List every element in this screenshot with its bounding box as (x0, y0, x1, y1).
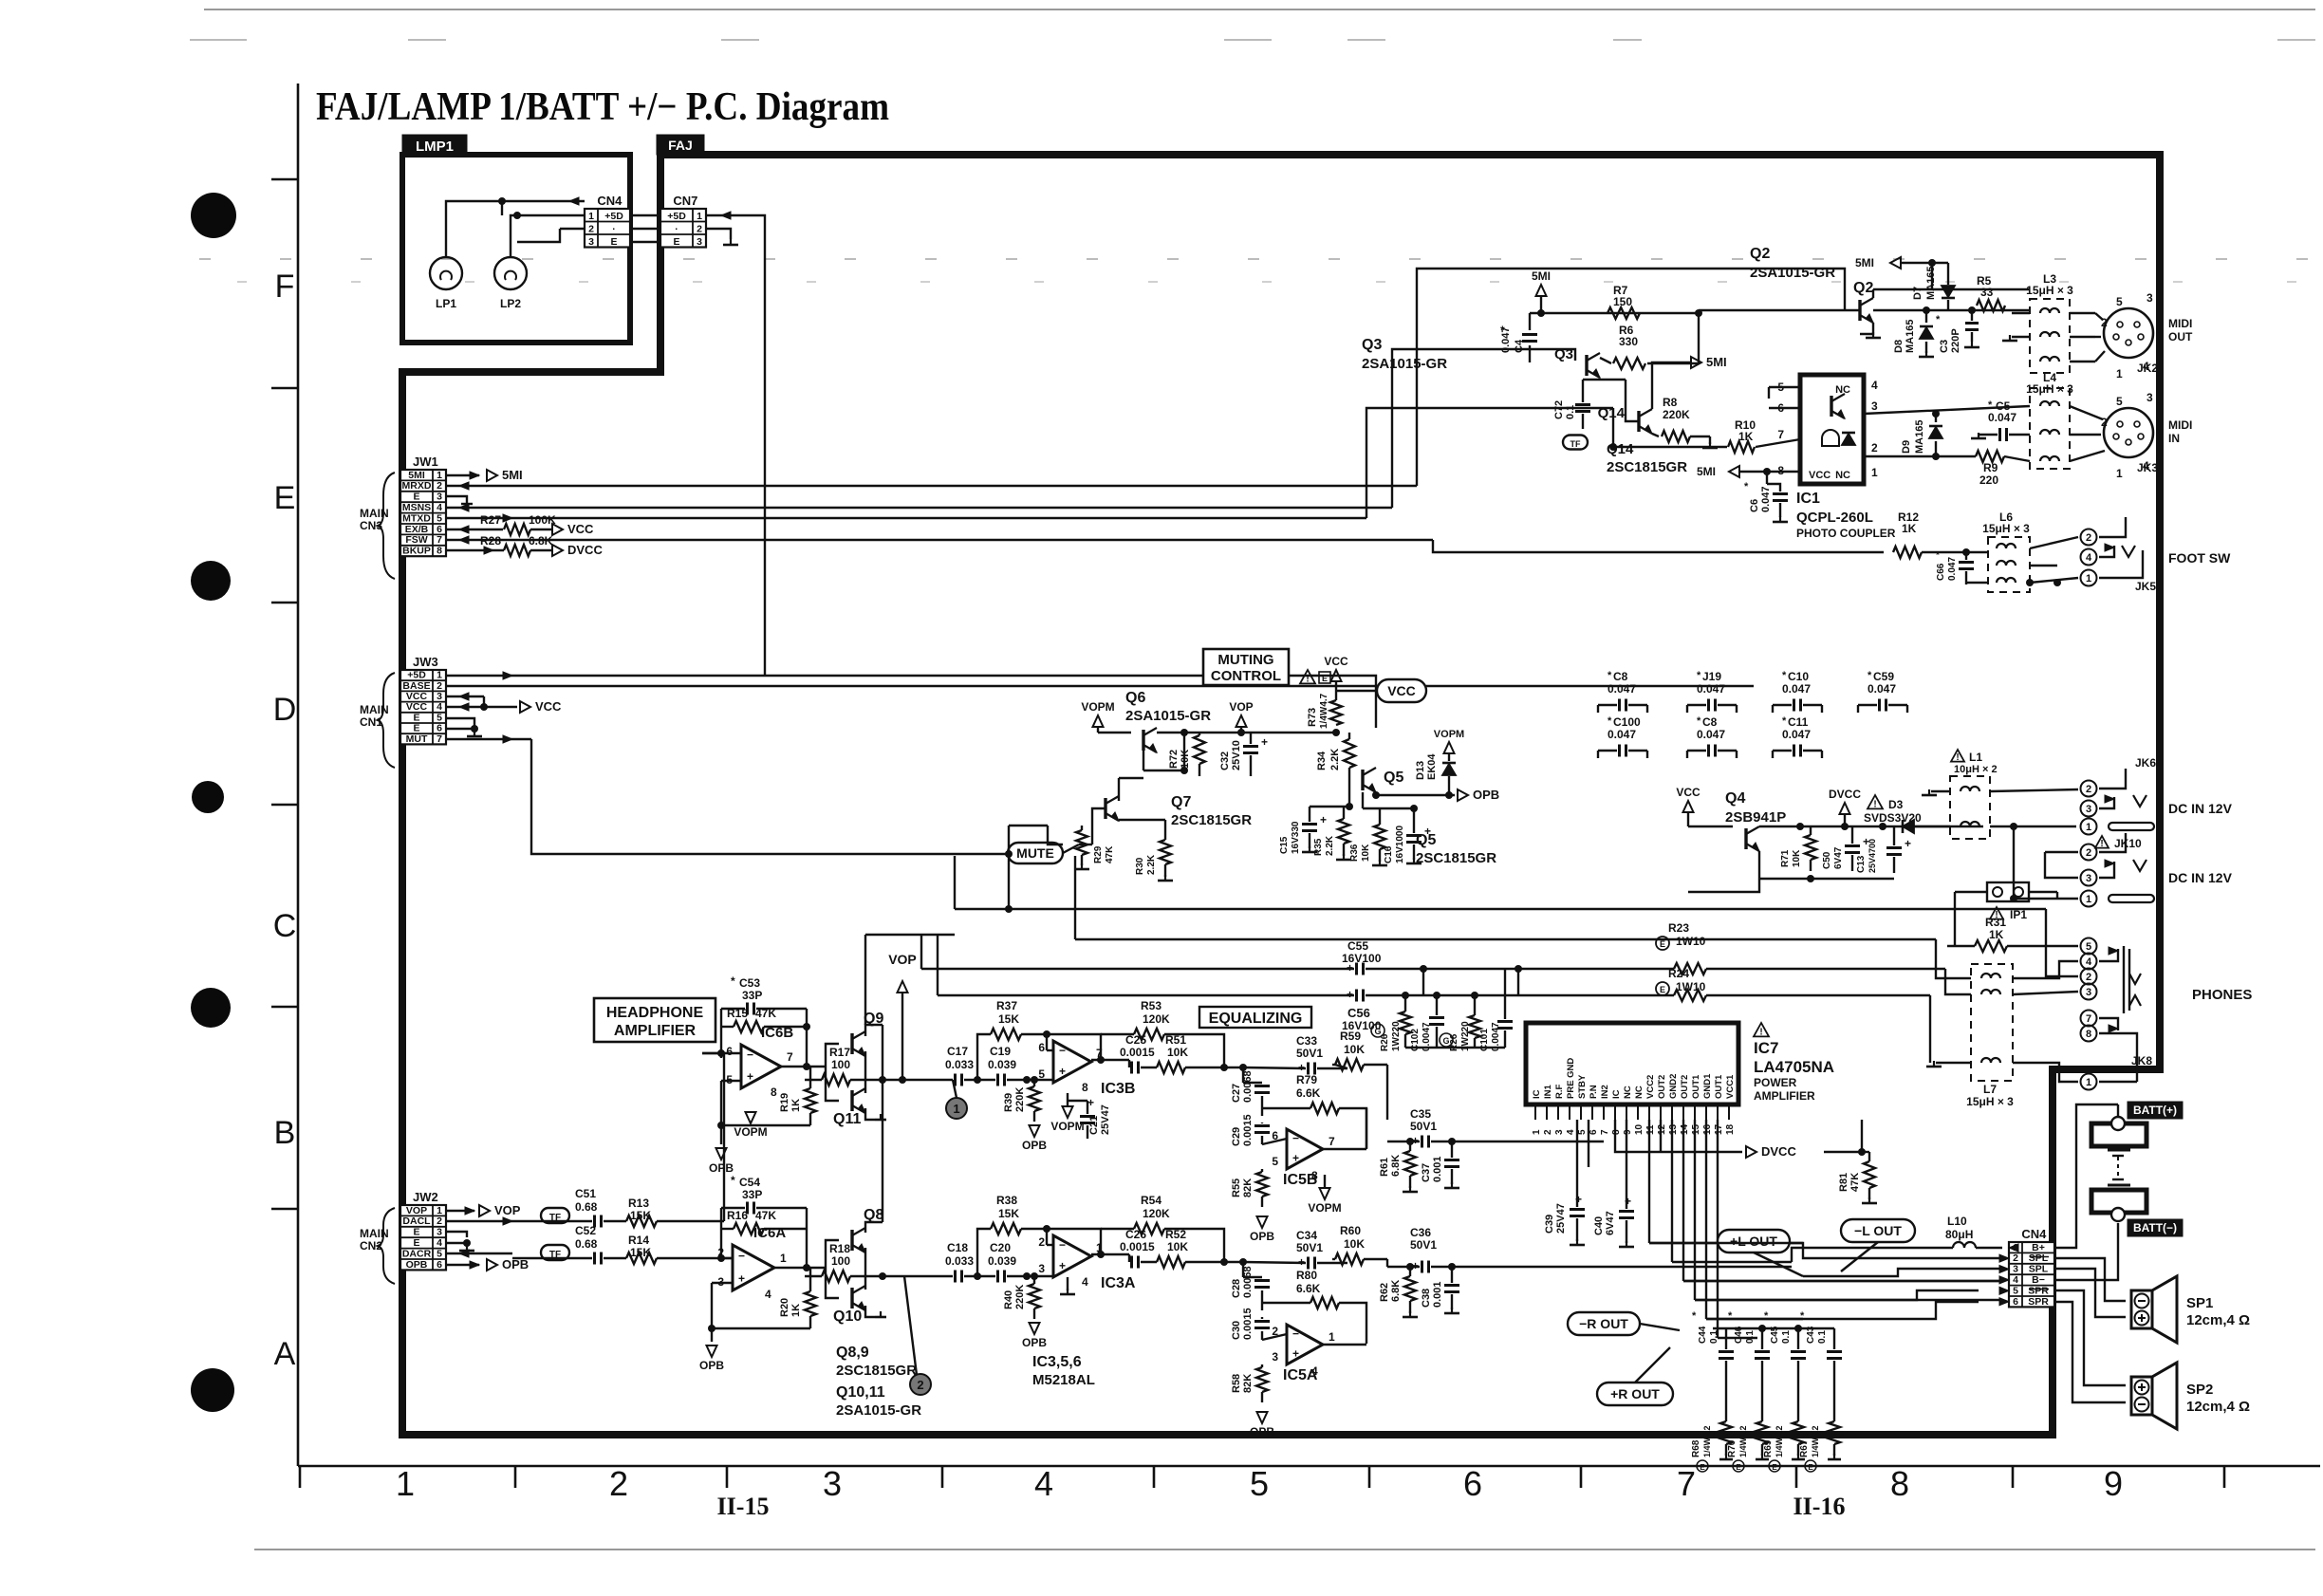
svg-text:5: 5 (437, 1248, 442, 1259)
svg-text:1/4W2.2: 1/4W2.2 (1811, 1425, 1820, 1457)
svg-text:VOP: VOP (494, 1203, 521, 1217)
svg-text:5: 5 (1272, 1155, 1278, 1168)
svg-text:+: + (747, 1070, 753, 1084)
svg-text:2SC1815GR: 2SC1815GR (836, 1363, 917, 1379)
svg-text:!: ! (1873, 799, 1876, 809)
svg-text:1K: 1K (1989, 928, 2004, 941)
svg-text:R53: R53 (1141, 999, 1161, 1012)
svg-text:C51: C51 (575, 1187, 596, 1200)
svg-text:7: 7 (1677, 1464, 1696, 1503)
svg-text:25V4700: 25V4700 (1868, 839, 1877, 873)
svg-text:82K: 82K (1242, 1178, 1254, 1197)
svg-text:2: 2 (437, 480, 442, 492)
svg-text:4: 4 (437, 502, 442, 513)
svg-text:C30: C30 (1231, 1321, 1242, 1340)
svg-text:DVCC: DVCC (567, 543, 603, 557)
svg-text:C100: C100 (1613, 715, 1641, 729)
svg-text:B−: B− (2032, 1274, 2045, 1286)
svg-text:MUTE: MUTE (1016, 845, 1054, 861)
svg-text:5: 5 (2013, 1285, 2018, 1296)
svg-text:R79: R79 (1296, 1073, 1317, 1086)
svg-text:FAJ/LAMP 1/BATT +/− P.C. Diagr: FAJ/LAMP 1/BATT +/− P.C. Diagram (316, 85, 889, 129)
svg-text:R16: R16 (727, 1209, 748, 1222)
svg-text:!: ! (1759, 1027, 1762, 1037)
svg-text:R35: R35 (1313, 838, 1324, 856)
svg-text:5: 5 (1038, 1067, 1045, 1081)
svg-text:IC1: IC1 (1796, 491, 1820, 507)
svg-text:C59: C59 (1873, 670, 1894, 683)
svg-text:VOP: VOP (888, 952, 917, 967)
svg-text:1: 1 (437, 1205, 442, 1216)
svg-text:*: * (1868, 670, 1872, 681)
svg-text:5MI: 5MI (1706, 355, 1727, 369)
svg-text:6.6K: 6.6K (1296, 1086, 1321, 1100)
svg-text:L10: L10 (1947, 1215, 1967, 1228)
svg-text:1W10: 1W10 (1676, 935, 1706, 948)
svg-text:1: 1 (2086, 822, 2091, 833)
svg-text:*: * (731, 1174, 735, 1187)
svg-text:10μH × 2: 10μH × 2 (1954, 764, 1998, 775)
svg-text:DVCC: DVCC (1761, 1144, 1796, 1159)
svg-text:E: E (1808, 1463, 1813, 1472)
svg-text:3: 3 (2013, 1264, 2018, 1275)
svg-text:8: 8 (437, 546, 442, 557)
svg-text:0.0015: 0.0015 (1120, 1240, 1155, 1253)
svg-text:VOPM: VOPM (1308, 1201, 1341, 1215)
svg-text:0.033: 0.033 (945, 1254, 974, 1268)
svg-text:*: * (1500, 324, 1505, 337)
svg-text:D3: D3 (1888, 798, 1904, 811)
svg-text:E: E (413, 1237, 419, 1249)
svg-text:OPB: OPB (1473, 788, 1499, 802)
svg-text:G: G (1442, 1036, 1449, 1046)
svg-text:C18: C18 (947, 1241, 968, 1254)
svg-text:1: 1 (780, 1252, 787, 1265)
svg-text:C10: C10 (1788, 670, 1809, 683)
svg-text:R55: R55 (1231, 1178, 1242, 1197)
svg-text:6: 6 (1589, 1129, 1599, 1135)
svg-text:0.047: 0.047 (1760, 486, 1772, 512)
svg-text:5MI: 5MI (1855, 256, 1874, 269)
svg-text:Q10,11: Q10,11 (836, 1384, 885, 1401)
svg-text:*: * (1988, 399, 1993, 411)
svg-text:SPR: SPR (2028, 1296, 2049, 1308)
svg-text:L1: L1 (1969, 751, 1982, 764)
svg-text:VCC: VCC (535, 699, 562, 714)
svg-text:15K: 15K (998, 1207, 1019, 1220)
svg-text:DACL: DACL (402, 1216, 431, 1227)
svg-text:OPB: OPB (1022, 1336, 1047, 1349)
svg-text:L7: L7 (1983, 1083, 1997, 1096)
svg-text:C13: C13 (1856, 855, 1867, 873)
svg-text:0.047: 0.047 (1868, 682, 1896, 696)
svg-text:CONTROL: CONTROL (1211, 668, 1281, 684)
svg-text:12cm,4 Ω: 12cm,4 Ω (2186, 1312, 2250, 1328)
svg-text:E: E (413, 723, 419, 734)
svg-text:220K: 220K (1014, 1087, 1026, 1112)
svg-text:BATT(+): BATT(+) (2133, 1104, 2177, 1117)
svg-text:25V47: 25V47 (1100, 1104, 1111, 1135)
svg-text:2: 2 (1543, 1129, 1553, 1135)
svg-text:10K: 10K (1344, 1043, 1365, 1056)
svg-text:TF: TF (1570, 439, 1581, 449)
svg-text:VOP: VOP (406, 1205, 427, 1216)
svg-text:C3: C3 (1939, 340, 1950, 353)
svg-text:C16: C16 (1384, 845, 1394, 863)
svg-text:JK6: JK6 (2135, 756, 2156, 770)
svg-text:5: 5 (1577, 1129, 1588, 1135)
svg-text:JW2: JW2 (413, 1190, 438, 1204)
svg-text:C21: C21 (1088, 1116, 1100, 1135)
svg-text:R36: R36 (1349, 844, 1360, 862)
svg-text:1: 1 (396, 1464, 415, 1503)
svg-text:5: 5 (2086, 941, 2091, 953)
svg-text:R68: R68 (1691, 1439, 1701, 1457)
svg-text:C33: C33 (1296, 1034, 1317, 1048)
svg-text:2SA1015-GR: 2SA1015-GR (1750, 265, 1835, 281)
svg-text:*: * (1697, 670, 1701, 681)
svg-text:4: 4 (765, 1288, 771, 1301)
svg-text:+5D: +5D (407, 670, 426, 681)
svg-text:5: 5 (1250, 1464, 1269, 1503)
svg-text:MA165: MA165 (1905, 320, 1916, 353)
svg-text:6: 6 (1038, 1041, 1045, 1054)
svg-text:100: 100 (831, 1058, 850, 1071)
svg-text:SPL: SPL (2029, 1264, 2049, 1275)
svg-text:VOPM: VOPM (1050, 1120, 1084, 1133)
svg-text:LMP1: LMP1 (416, 139, 454, 155)
svg-text:−R OUT: −R OUT (1579, 1316, 1628, 1331)
svg-text:1K: 1K (790, 1099, 802, 1112)
svg-text:Q6: Q6 (1125, 690, 1145, 706)
svg-text:5MI: 5MI (408, 470, 425, 481)
svg-text:50V1: 50V1 (1296, 1241, 1323, 1254)
svg-text:2: 2 (2086, 972, 2091, 983)
svg-text:C17: C17 (947, 1045, 968, 1058)
svg-text:2: 2 (437, 680, 442, 692)
svg-text:IC3B: IC3B (1101, 1081, 1135, 1097)
svg-text:GND2: GND2 (1668, 1074, 1679, 1099)
svg-text:VCC: VCC (567, 522, 594, 536)
svg-text:0.047: 0.047 (1782, 682, 1811, 696)
svg-text:2SB941P: 2SB941P (1725, 809, 1786, 826)
svg-text:Q10: Q10 (833, 1308, 862, 1325)
svg-text:IN1: IN1 (1543, 1085, 1553, 1100)
svg-text:1: 1 (2086, 1077, 2091, 1088)
svg-text:II-16: II-16 (1793, 1493, 1846, 1520)
svg-text:C: C (273, 908, 297, 944)
svg-text:16: 16 (1702, 1123, 1713, 1135)
svg-text:1: 1 (2086, 573, 2091, 585)
svg-text:4: 4 (437, 1237, 442, 1249)
svg-text:VOP: VOP (1229, 700, 1253, 714)
svg-text:3: 3 (588, 236, 594, 248)
svg-text:9: 9 (2104, 1464, 2123, 1503)
svg-text:JW3: JW3 (413, 655, 438, 669)
svg-text:II-15: II-15 (717, 1493, 770, 1520)
svg-text:15μH × 3: 15μH × 3 (2026, 284, 2073, 297)
svg-text:JK10: JK10 (2114, 837, 2142, 850)
svg-text:OUT1: OUT1 (1691, 1074, 1701, 1099)
svg-text:2: 2 (697, 223, 702, 234)
svg-text:IN: IN (2168, 432, 2180, 445)
svg-text:MUT: MUT (406, 733, 428, 745)
svg-text:R69: R69 (1763, 1439, 1774, 1457)
svg-text:1: 1 (588, 211, 594, 222)
svg-text:1: 1 (2086, 894, 2091, 905)
svg-text:P.N: P.N (1589, 1085, 1599, 1099)
svg-text:100: 100 (831, 1254, 850, 1268)
svg-text:8: 8 (2086, 1029, 2091, 1040)
svg-text:4: 4 (2086, 552, 2092, 564)
svg-text:FOOT SW: FOOT SW (2168, 550, 2231, 566)
svg-text:330: 330 (1619, 335, 1638, 348)
svg-text:3: 3 (2146, 391, 2153, 404)
svg-text:0.68: 0.68 (575, 1200, 598, 1214)
svg-text:IC: IC (1611, 1089, 1622, 1099)
svg-text:2SC1815GR: 2SC1815GR (1607, 459, 1687, 475)
svg-text:4: 4 (1082, 1275, 1088, 1289)
svg-text:·: · (612, 223, 616, 234)
svg-text:E: E (413, 492, 419, 503)
svg-text:*: * (1608, 715, 1612, 727)
svg-text:MAIN: MAIN (360, 703, 389, 716)
svg-text:VCC1: VCC1 (1725, 1074, 1736, 1099)
svg-text:R62: R62 (1379, 1283, 1390, 1302)
svg-text:1: 1 (1532, 1129, 1542, 1135)
svg-text:Q5: Q5 (1384, 770, 1403, 786)
svg-text:C52: C52 (575, 1224, 596, 1237)
svg-text:HEADPHONE: HEADPHONE (606, 1005, 704, 1021)
svg-text:2: 2 (2101, 416, 2108, 429)
svg-text:Q2: Q2 (1853, 280, 1873, 296)
svg-text:1/4W4.7: 1/4W4.7 (1319, 693, 1329, 729)
svg-text:1/4W2.2: 1/4W2.2 (1775, 1425, 1784, 1457)
svg-text:7: 7 (437, 733, 442, 745)
svg-text:Q11: Q11 (833, 1111, 861, 1127)
svg-text:CN7: CN7 (673, 194, 697, 208)
svg-text:OUT2: OUT2 (1657, 1075, 1667, 1099)
svg-text:DC IN 12V: DC IN 12V (2168, 801, 2233, 816)
svg-text:0.033: 0.033 (945, 1058, 974, 1071)
svg-text:6: 6 (726, 1045, 733, 1058)
svg-text:OPB: OPB (502, 1257, 529, 1271)
svg-text:PHONES: PHONES (2192, 987, 2252, 1003)
svg-text:E: E (1736, 1463, 1741, 1472)
svg-text:16V330: 16V330 (1291, 821, 1301, 854)
svg-text:5: 5 (2116, 295, 2123, 308)
svg-text:OPB: OPB (406, 1259, 428, 1271)
svg-text:+R OUT: +R OUT (1610, 1386, 1660, 1401)
svg-text:OUT1: OUT1 (1714, 1074, 1724, 1099)
svg-text:6: 6 (437, 524, 442, 535)
svg-text:DVCC: DVCC (1829, 788, 1861, 801)
svg-text:6.8K: 6.8K (1390, 1280, 1402, 1302)
svg-text:D9: D9 (1901, 440, 1912, 454)
svg-text:47K: 47K (1849, 1173, 1861, 1192)
svg-text:0.047: 0.047 (1608, 682, 1636, 696)
svg-text:R73: R73 (1307, 708, 1318, 727)
svg-text:R70: R70 (1727, 1439, 1738, 1457)
svg-text:0.001: 0.001 (1432, 1281, 1443, 1308)
svg-text:A: A (274, 1336, 296, 1372)
svg-text:C15: C15 (1279, 836, 1290, 854)
svg-text:R54: R54 (1141, 1194, 1161, 1207)
svg-text:12: 12 (1657, 1123, 1667, 1135)
svg-text:0.1: 0.1 (1709, 1330, 1719, 1344)
svg-text:C4: C4 (1514, 339, 1525, 353)
svg-text:−: − (1059, 1238, 1066, 1252)
svg-text:8: 8 (771, 1086, 777, 1099)
svg-text:C27: C27 (1231, 1084, 1242, 1103)
svg-text:2: 2 (1871, 441, 1878, 455)
svg-text:C44: C44 (1698, 1326, 1708, 1344)
svg-text:220K: 220K (1663, 408, 1690, 421)
svg-text:+: + (1059, 1065, 1066, 1078)
svg-text:MSNS: MSNS (402, 502, 431, 513)
svg-text:0.047: 0.047 (1608, 728, 1636, 741)
svg-text:1W220: 1W220 (1391, 1021, 1402, 1051)
svg-text:10K: 10K (1344, 1237, 1365, 1251)
svg-text:MUTING: MUTING (1217, 652, 1273, 668)
svg-text:IC5A: IC5A (1283, 1367, 1318, 1383)
svg-text:C20: C20 (990, 1241, 1011, 1254)
svg-text:+5D: +5D (667, 211, 686, 222)
svg-text:11: 11 (1645, 1124, 1656, 1135)
svg-text:7: 7 (787, 1050, 793, 1064)
svg-text:*: * (731, 974, 735, 988)
svg-text:GND1: GND1 (1702, 1073, 1713, 1099)
svg-text:C66: C66 (1936, 563, 1946, 581)
svg-text:33P: 33P (742, 1188, 762, 1201)
svg-text:2: 2 (2086, 532, 2091, 544)
svg-text:1: 1 (2116, 367, 2123, 380)
svg-text:M5218AL: M5218AL (1032, 1372, 1095, 1388)
svg-text:−: − (747, 1049, 753, 1062)
svg-text:R71: R71 (1780, 849, 1791, 867)
svg-text:+: + (1292, 1151, 1299, 1164)
svg-text:6V47: 6V47 (1605, 1211, 1616, 1235)
svg-text:!: ! (1956, 752, 1959, 763)
svg-text:3: 3 (437, 1227, 442, 1238)
svg-text:0.047: 0.047 (1782, 728, 1811, 741)
svg-text:0.1: 0.1 (1745, 1330, 1756, 1344)
svg-text:MAIN: MAIN (360, 1227, 389, 1240)
svg-text:10K: 10K (1361, 844, 1371, 862)
svg-text:0.047: 0.047 (1988, 411, 2016, 424)
svg-text:+: + (738, 1271, 745, 1285)
svg-text:6: 6 (2013, 1296, 2018, 1308)
svg-text:C53: C53 (739, 976, 760, 990)
svg-text:VOPM: VOPM (734, 1125, 767, 1139)
svg-text:0.047: 0.047 (1947, 557, 1958, 581)
svg-text:IN2: IN2 (1600, 1085, 1610, 1099)
svg-text:+: + (1320, 813, 1327, 826)
svg-text:R81: R81 (1838, 1173, 1849, 1192)
svg-text:2: 2 (2013, 1253, 2018, 1264)
svg-text:C8: C8 (1613, 670, 1628, 683)
svg-text:6: 6 (1463, 1464, 1482, 1503)
svg-text:J19: J19 (1702, 670, 1721, 683)
svg-text:33: 33 (1980, 286, 1994, 299)
svg-text:5MI: 5MI (502, 468, 523, 482)
svg-text:*: * (1936, 314, 1941, 325)
svg-text:5: 5 (2116, 395, 2123, 408)
svg-text:JK2: JK2 (2137, 362, 2158, 375)
svg-text:C38: C38 (1421, 1289, 1432, 1308)
svg-text:3: 3 (1871, 399, 1878, 413)
svg-text:220P: 220P (1950, 328, 1961, 353)
svg-text:+: + (1059, 1259, 1066, 1272)
svg-text:D8: D8 (1893, 340, 1905, 353)
svg-text:Q14: Q14 (1598, 405, 1626, 421)
svg-text:Q8,9: Q8,9 (836, 1345, 869, 1361)
svg-text:R9: R9 (1983, 461, 1998, 474)
svg-text:1: 1 (953, 1102, 959, 1116)
svg-text:7: 7 (1600, 1129, 1610, 1135)
svg-text:R37: R37 (996, 999, 1017, 1012)
svg-text:0.039: 0.039 (988, 1254, 1016, 1268)
svg-text:C19: C19 (990, 1045, 1011, 1058)
svg-text:15μH × 3: 15μH × 3 (1966, 1095, 2014, 1108)
svg-text:R20: R20 (779, 1298, 790, 1317)
svg-text:STBY: STBY (1577, 1074, 1588, 1099)
svg-text:BASE: BASE (402, 680, 430, 692)
svg-text:C28: C28 (1231, 1279, 1242, 1298)
svg-text:*: * (1782, 715, 1787, 727)
svg-text:80μH: 80μH (1945, 1228, 1973, 1241)
svg-text:15μH × 3: 15μH × 3 (1982, 522, 2030, 535)
svg-text:AMPLIFIER: AMPLIFIER (614, 1023, 697, 1039)
svg-text:220: 220 (1979, 473, 1998, 487)
svg-text:CN4: CN4 (2021, 1227, 2047, 1241)
svg-text:OPB: OPB (699, 1359, 724, 1372)
svg-text:OPB: OPB (1022, 1139, 1047, 1152)
svg-text:3: 3 (823, 1464, 842, 1503)
svg-text:VCC2: VCC2 (1645, 1075, 1656, 1099)
svg-text:R28: R28 (480, 534, 501, 547)
svg-text:Q2: Q2 (1750, 246, 1770, 262)
svg-text:4: 4 (437, 701, 442, 713)
svg-text:+5D: +5D (604, 211, 623, 222)
svg-text:1: 1 (437, 670, 442, 681)
svg-text:IC6B: IC6B (761, 1025, 793, 1041)
svg-text:IC3,5,6: IC3,5,6 (1032, 1354, 1082, 1370)
svg-text:0.68: 0.68 (575, 1237, 598, 1251)
svg-text:*: * (1697, 715, 1701, 727)
svg-text:R30: R30 (1135, 857, 1145, 875)
svg-text:MA165: MA165 (1914, 420, 1925, 454)
svg-text:NC: NC (1634, 1086, 1645, 1099)
svg-text:LP1: LP1 (436, 297, 456, 310)
svg-text:0.0015: 0.0015 (1242, 1308, 1254, 1340)
svg-text:+L OUT: +L OUT (1730, 1234, 1777, 1249)
svg-text:50V1: 50V1 (1410, 1238, 1437, 1252)
svg-text:C32: C32 (1219, 752, 1231, 770)
svg-text:CN4: CN4 (597, 194, 623, 208)
svg-text:*: * (1936, 550, 1940, 561)
svg-text:C34: C34 (1296, 1229, 1317, 1242)
svg-text:D: D (273, 692, 297, 728)
svg-text:NC: NC (1835, 470, 1850, 481)
svg-text:VCC: VCC (1324, 655, 1348, 668)
svg-text:2: 2 (609, 1464, 628, 1503)
svg-text:1: 1 (1329, 1330, 1335, 1344)
svg-text:150: 150 (1613, 295, 1632, 308)
svg-text:0.0015: 0.0015 (1242, 1114, 1254, 1146)
svg-text:C35: C35 (1410, 1107, 1431, 1121)
svg-text:5MI: 5MI (1532, 269, 1551, 283)
